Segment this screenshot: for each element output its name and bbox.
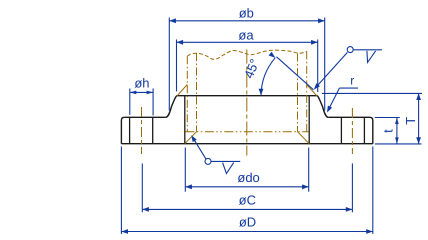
dimension øh extension lines — [129, 89, 131, 115]
dimension øD line — [121, 231, 372, 233]
bore right edge — [308, 96, 310, 144]
dimension T extension lines — [322, 92, 422, 94]
dimension øC extension lines — [141, 163, 143, 212]
svg-text:T: T — [403, 117, 418, 125]
svg-text:øh: øh — [134, 75, 149, 90]
svg-text:øC: øC — [239, 193, 256, 208]
dimension øC line — [142, 208, 352, 210]
flange plate outline (cross-section) — [124, 116, 165, 118]
hidden line left outer — [186, 56, 188, 131]
dimension øD extension lines — [120, 147, 122, 234]
svg-text:t: t — [381, 129, 396, 133]
dimension øb line — [169, 20, 324, 22]
flange centre axis — [246, 50, 248, 156]
pipe break line (wavy) — [187, 50, 306, 59]
dimension øa line — [177, 41, 318, 43]
right neck S-curve — [317, 96, 329, 118]
hidden horizontal socket depth line — [185, 131, 308, 133]
left bore chamfer (hidden) — [185, 132, 197, 144]
surface finish symbol (top right) line and tick — [354, 49, 382, 51]
dimension øb extension lines — [168, 18, 170, 111]
svg-text:øD: øD — [239, 215, 256, 230]
left bolt hole edges — [129, 117, 131, 143]
svg-text:ødo: ødo — [237, 170, 259, 185]
dimension t extension line — [375, 117, 400, 119]
surface finish symbol (bottom) line and tick — [211, 160, 240, 162]
dimension øa extension lines — [176, 40, 178, 92]
svg-text:øb: øb — [239, 6, 254, 21]
45-deg angle dimension line — [277, 57, 314, 90]
hidden line left inner — [196, 53, 198, 132]
left neck S-curve — [166, 96, 178, 118]
svg-text:øa: øa — [238, 27, 254, 42]
right bore chamfer (hidden) — [298, 132, 310, 144]
left 45-deg weld bevel (hidden) — [177, 85, 187, 96]
surface finish symbol (top right) circle — [347, 47, 353, 53]
leader r — [339, 87, 358, 89]
surface finish leader (bottom) — [192, 137, 206, 159]
svg-text:45°: 45° — [241, 57, 262, 81]
left bolt hole centreline — [141, 107, 143, 154]
dimension t line — [396, 118, 398, 144]
bore left edge — [184, 96, 186, 144]
surface finish leader (top right) — [315, 52, 347, 88]
hub top edge — [177, 95, 317, 97]
right bolt hole centreline — [351, 108, 353, 154]
svg-text:r: r — [350, 74, 354, 88]
dimension T line — [418, 93, 420, 143]
45-deg angle arc — [261, 58, 275, 96]
dimension ødo line — [185, 186, 308, 188]
hidden line right outer — [306, 51, 308, 131]
dimension øh line — [130, 91, 153, 93]
hidden line right inner — [297, 54, 299, 132]
surface finish symbol (bottom) circle — [205, 158, 211, 164]
dimension ødo extension lines — [184, 148, 186, 192]
right 45-deg weld bevel (hidden) — [307, 85, 317, 96]
right bolt hole edges — [340, 117, 342, 143]
